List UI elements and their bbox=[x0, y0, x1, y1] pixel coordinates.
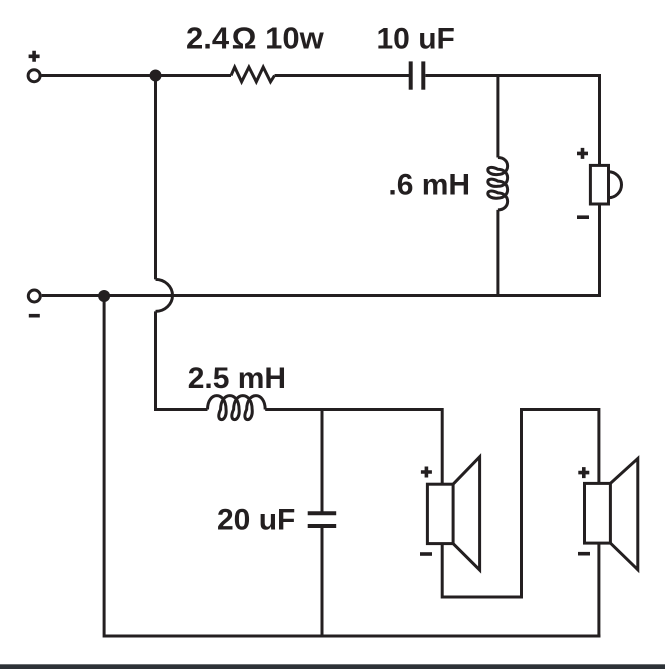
bottom black bar bbox=[0, 664, 665, 669]
tweeter SP1 dome bbox=[609, 172, 622, 198]
capacitor C2 20uF branch wire bottom bbox=[321, 526, 324, 636]
woofer SP3 rectangle bbox=[585, 483, 611, 543]
wire bottom rail bbox=[104, 635, 600, 638]
woofer SP2 rectangle bbox=[427, 484, 453, 543]
label + tweeter bbox=[577, 148, 588, 159]
capacitor C2 20uF plates bbox=[308, 511, 337, 515]
capacitor C2 20uF branch wire top bbox=[321, 408, 324, 513]
label + woofer SP3 bbox=[578, 467, 589, 478]
inductor L2 2.5mH coil bbox=[208, 396, 266, 420]
svg-text:2.4Ω 10w: 2.4Ω 10w bbox=[186, 21, 325, 56]
junction dot node B bbox=[98, 290, 110, 302]
wire down to woofer1 bbox=[441, 408, 444, 484]
label - input terminal bbox=[29, 314, 40, 318]
wire vertical from hop down to corner bbox=[154, 311, 157, 409]
wire negative rail horizontal bbox=[42, 294, 600, 297]
junction dot node A bbox=[150, 70, 162, 82]
woofer SP2 cone bbox=[453, 457, 480, 570]
inductor L1 .6mH coil bbox=[488, 158, 508, 210]
label - woofer SP2 bbox=[420, 552, 432, 556]
capacitor C1 10uF plates bbox=[409, 61, 413, 89]
wire hop over negative rail bbox=[156, 279, 173, 311]
terminal - (input negative) bbox=[28, 290, 40, 302]
terminal + (input positive) bbox=[28, 70, 40, 82]
wire left vertical negative branch bbox=[103, 296, 106, 638]
wire mid vertical from top rail to inductor .6mH bbox=[496, 74, 499, 158]
label + input terminal bbox=[29, 51, 40, 62]
svg-text:2.5 mH: 2.5 mH bbox=[188, 362, 286, 395]
wire woofer1 bottom down and right bbox=[442, 410, 599, 598]
wire tweeter bottom down bbox=[598, 204, 601, 297]
wire from inductor .6mH down to negative rail bbox=[496, 210, 499, 296]
tweeter SP1 rectangle bbox=[590, 165, 608, 204]
wire right vertical down to tweeter bbox=[598, 74, 601, 165]
wire horizontal to inductor 2.5mH bbox=[154, 408, 208, 411]
wire from resistor to capacitor 10uF bbox=[275, 74, 410, 77]
wire from capacitor to top-right corner bbox=[425, 74, 601, 77]
wire top from + terminal to resistor bbox=[42, 74, 232, 77]
svg-text:.6 mH: .6 mH bbox=[388, 169, 470, 202]
label - tweeter bbox=[577, 215, 589, 219]
resistor R zigzag 2.4 ohm bbox=[231, 67, 275, 82]
label - woofer SP3 bbox=[578, 552, 590, 556]
svg-text:20 uF: 20 uF bbox=[217, 503, 295, 536]
wire woofer2 bottom down to bottom rail bbox=[597, 543, 600, 637]
wire from coil to woofer1 corner bbox=[265, 408, 442, 411]
wire vertical from node A down to hop bbox=[154, 76, 157, 280]
label + woofer SP2 bbox=[421, 467, 432, 478]
woofer SP3 cone bbox=[610, 459, 637, 570]
svg-text:10 uF: 10 uF bbox=[377, 23, 455, 56]
